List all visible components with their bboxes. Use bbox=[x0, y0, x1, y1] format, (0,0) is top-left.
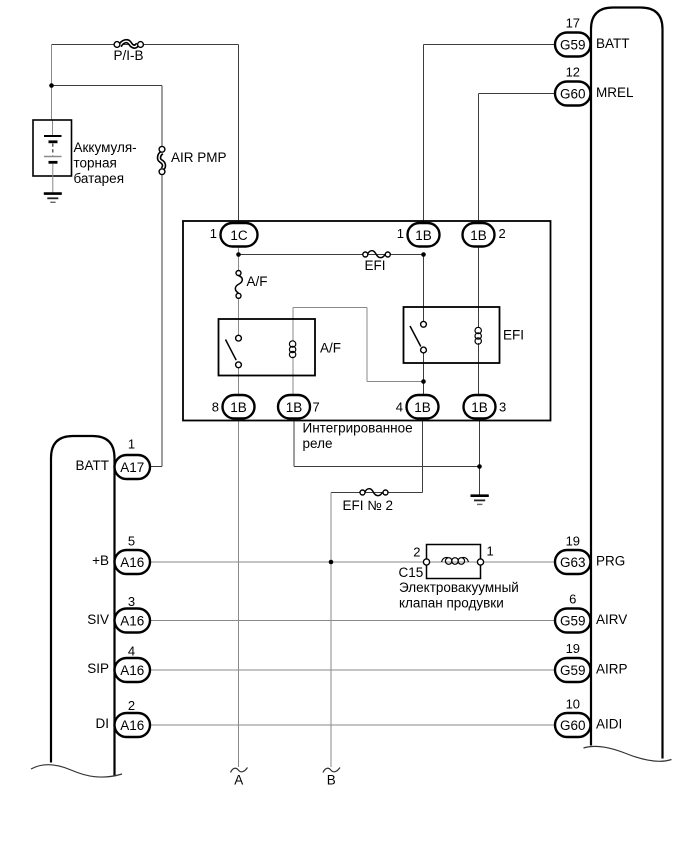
wire: relay pin 1B-3 drop to ground junction and ground lead bbox=[479, 418, 481, 495]
svg-text:1B: 1B bbox=[230, 400, 247, 415]
svg-text:Электровакуумный: Электровакуумный bbox=[399, 580, 519, 595]
svg-text:19: 19 bbox=[566, 641, 580, 656]
svg-text:1: 1 bbox=[210, 226, 217, 241]
torn edge of connector G bbox=[584, 746, 672, 761]
wire: A/F fuse to A/F relay switch top contact bbox=[238, 299, 240, 336]
svg-text:1B: 1B bbox=[471, 400, 488, 415]
svg-text:B: B bbox=[327, 773, 336, 788]
svg-text:AIDI: AIDI bbox=[596, 717, 622, 732]
svg-text:G59: G59 bbox=[560, 38, 586, 53]
battery cell plates bbox=[44, 136, 62, 162]
oval terminal A16 (SIP) bbox=[115, 658, 151, 682]
svg-text:MREL: MREL bbox=[596, 85, 634, 100]
svg-text:P/I-B: P/I-B bbox=[113, 48, 143, 63]
svg-text:1: 1 bbox=[397, 226, 404, 241]
wire: B column from EFI No.2 fuse line down to break B bbox=[330, 493, 332, 768]
oval terminal A16 (DI) bbox=[115, 713, 151, 737]
node: battery branch junction bbox=[49, 83, 54, 88]
oval terminal A16 (+B) bbox=[115, 550, 151, 574]
svg-text:17: 17 bbox=[566, 16, 580, 31]
node: EFI switch output junction bbox=[421, 379, 426, 384]
wire: EFI relay switch bottom contact down to relay pin 1B-4 bbox=[423, 353, 425, 397]
wire: EFI relay coil down to relay pin 1B-3 bbox=[478, 343, 480, 397]
fuse EFI inside relay bbox=[363, 251, 391, 258]
wire: gray link horizontal from A/F coil top bbox=[293, 307, 367, 309]
wire: A/F relay coil bottom lead to relay pin 1B-7 bbox=[292, 356, 294, 397]
svg-text:A16: A16 bbox=[120, 555, 144, 570]
connector body G (right, BATT/MREL/PRG/AIRV/AIRP/AIDI) bbox=[591, 8, 663, 759]
wire: top feed horizontal from battery branch to relay 1C drop bbox=[52, 44, 239, 46]
svg-text:2: 2 bbox=[499, 226, 506, 241]
svg-text:1B: 1B bbox=[415, 228, 432, 243]
svg-text:BATT: BATT bbox=[596, 36, 630, 51]
svg-text:1: 1 bbox=[128, 437, 135, 452]
oval terminal G59 (AIRV) bbox=[555, 609, 591, 633]
wire: relay internal bus from 1C node to 1B-1 node through EFI fuse bbox=[239, 254, 424, 256]
svg-text:клапан продувки: клапан продувки bbox=[399, 596, 504, 611]
svg-text:EFI № 2: EFI № 2 bbox=[343, 498, 394, 513]
C15 pin 1 terminal bbox=[477, 559, 483, 565]
svg-text:3: 3 bbox=[128, 594, 135, 609]
wire: horizontal from 1B-7 drop to ground junction bbox=[294, 466, 480, 468]
A/F relay coil bbox=[289, 341, 295, 358]
svg-text:BATT: BATT bbox=[76, 458, 110, 473]
wire: battery positive vertical from top feed to battery bbox=[51, 45, 53, 121]
svg-text:12: 12 bbox=[566, 65, 580, 80]
EFI relay switch bbox=[410, 321, 426, 353]
wire: DI to AIDI horizontal bbox=[149, 724, 556, 726]
svg-text:4: 4 bbox=[128, 644, 135, 659]
node: relay internal node below 1B-1 bbox=[421, 252, 426, 257]
svg-text:A16: A16 bbox=[120, 718, 144, 733]
svg-text:EFI: EFI bbox=[503, 328, 524, 343]
svg-text:AIR PMP: AIR PMP bbox=[171, 150, 227, 165]
fusible link P/I-B (bold fuse) bbox=[114, 41, 143, 47]
svg-text:2: 2 bbox=[413, 545, 420, 560]
svg-text:реле: реле bbox=[303, 436, 333, 451]
torn edge of connector A bbox=[31, 765, 122, 777]
svg-text:G63: G63 bbox=[560, 555, 586, 570]
svg-text:G59: G59 bbox=[560, 663, 586, 678]
wire: 1C oval to internal node bbox=[238, 246, 240, 271]
battery B1 box (Аккумуляторная батарея) bbox=[33, 120, 72, 176]
wire: SIV to AIRV horizontal bbox=[149, 620, 556, 622]
oval pin 1B-3 on relay bbox=[464, 395, 496, 419]
svg-text:A16: A16 bbox=[120, 614, 144, 629]
C15 pin 2 terminal bbox=[423, 559, 429, 565]
svg-text:3: 3 bbox=[499, 400, 506, 415]
wire: AIR PMP column upper segment bbox=[161, 86, 163, 148]
svg-text:1B: 1B bbox=[470, 228, 487, 243]
wire: vertical drop from top feed to relay pin 1C bbox=[238, 45, 240, 224]
svg-text:A: A bbox=[234, 773, 243, 788]
wire: EFI No.2 fuse horizontal from 1B-4 drop to B column bbox=[331, 492, 423, 494]
A/F relay switch bbox=[226, 335, 242, 367]
svg-text:EFI: EFI bbox=[364, 258, 385, 273]
oval terminal G59 (AIRP) bbox=[555, 658, 591, 682]
svg-text:SIP: SIP bbox=[87, 661, 109, 676]
svg-text:2: 2 bbox=[128, 698, 135, 713]
oval terminal A16 (SIV) bbox=[115, 609, 151, 633]
wire: 1B-2 column down to EFI relay coil bbox=[478, 246, 480, 328]
svg-text:8: 8 bbox=[212, 400, 219, 415]
svg-text:батарея: батарея bbox=[74, 171, 125, 186]
fusible link AIR PMP (bold fuse) bbox=[159, 146, 165, 174]
svg-text:19: 19 bbox=[566, 534, 580, 549]
ground symbol at battery bbox=[44, 194, 62, 203]
node: ground junction under relay bbox=[477, 464, 482, 469]
svg-text:6: 6 bbox=[569, 592, 576, 607]
svg-text:G59: G59 bbox=[560, 614, 586, 629]
wire: relay pin 1B-7 drop below relay bbox=[293, 418, 295, 467]
C15 coil (solenoid) bbox=[442, 557, 469, 565]
oval pin 1B-4 on relay bbox=[407, 395, 439, 419]
svg-text:A/F: A/F bbox=[320, 341, 341, 356]
node: relay internal node below 1C bbox=[236, 252, 241, 257]
svg-text:PRG: PRG bbox=[596, 554, 625, 569]
wire: G59 BATT horizontal to 1B pin1 drop bbox=[424, 44, 557, 46]
svg-text:1B: 1B bbox=[414, 400, 431, 415]
svg-text:1: 1 bbox=[487, 544, 494, 559]
oval terminal G63 (PRG) bbox=[555, 550, 591, 574]
break symbol A bbox=[231, 768, 248, 773]
svg-text:Интегрированное: Интегрированное bbox=[303, 421, 413, 436]
svg-text:AIRV: AIRV bbox=[596, 612, 627, 627]
connector body A (left, BATT/+B/SIV/SIP/DI) bbox=[51, 436, 115, 777]
oval pin 1B-1 on relay bbox=[408, 223, 440, 247]
oval terminal G60 (AIDI) bbox=[555, 713, 591, 737]
fuse A/F inside relay (vertical) bbox=[235, 271, 242, 299]
wire: stub from A17 oval to AIR PMP column bbox=[149, 466, 162, 468]
EFI relay box bbox=[404, 307, 500, 363]
wire: battery negative lead to ground bbox=[52, 164, 54, 194]
oval pin 1C on relay bbox=[221, 223, 258, 247]
svg-text:A17: A17 bbox=[120, 460, 144, 475]
wire: AIR PMP column lower segment down to A17 stub bbox=[161, 174, 163, 467]
wire: G60 MREL horizontal to 1B pin2 drop bbox=[479, 93, 557, 95]
C15 purge valve box bbox=[427, 545, 481, 579]
svg-text:10: 10 bbox=[566, 697, 580, 712]
wire: SIP to AIRP horizontal bbox=[149, 669, 556, 671]
svg-text:4: 4 bbox=[396, 400, 403, 415]
wire: vertical drop from G60 MREL wire to relay pin 1B-2 bbox=[478, 94, 480, 224]
wire: A column from relay pin 1B-8 down to break A bbox=[238, 418, 240, 767]
svg-text:1C: 1C bbox=[230, 228, 248, 243]
svg-text:G60: G60 bbox=[560, 87, 586, 102]
svg-text:+B: +B bbox=[92, 553, 109, 568]
svg-text:1B: 1B bbox=[286, 400, 303, 415]
wire: branch horizontal from battery junction to AIR PMP column bbox=[52, 85, 163, 87]
svg-text:G60: G60 bbox=[560, 718, 586, 733]
oval pin 1B-8 on relay bbox=[223, 395, 255, 419]
svg-text:торная: торная bbox=[74, 156, 117, 171]
wire: battery internal top lead bbox=[52, 120, 54, 135]
oval pin 1B-7 on relay bbox=[278, 395, 310, 419]
integrated relay outer box bbox=[183, 221, 551, 421]
node: +B / B-column junction bbox=[329, 560, 334, 565]
oval pin 1B-2 on relay bbox=[463, 223, 495, 247]
fuse EFI No.2 bbox=[360, 489, 388, 496]
svg-text:C15: C15 bbox=[399, 565, 424, 580]
oval terminal A17 (BATT) bbox=[115, 455, 151, 479]
wire: gray link vertical bbox=[366, 308, 368, 382]
wire: relay pin 1B-4 drop to EFI No.2 fuse line bbox=[422, 418, 424, 493]
svg-text:7: 7 bbox=[313, 400, 320, 415]
svg-text:A/F: A/F bbox=[247, 274, 268, 289]
ground symbol under relay bbox=[471, 496, 489, 505]
A/F relay box bbox=[219, 319, 316, 376]
break symbol B bbox=[323, 768, 340, 773]
oval terminal G59 (BATT) bbox=[555, 33, 591, 57]
svg-text:SIV: SIV bbox=[87, 612, 109, 627]
wire: A/F relay coil top lead bbox=[292, 308, 294, 342]
wire: A/F relay switch bottom contact to relay pin 1B-8 bbox=[238, 368, 240, 397]
wire: 1B-1 node down to EFI relay switch top contact bbox=[423, 255, 425, 322]
wire: gray link horizontal into EFI switch output node bbox=[367, 381, 424, 383]
wire: vertical drop from G59 BATT wire to relay pin 1B-1 bbox=[423, 45, 425, 224]
wire: +B to PRG horizontal through C15 bbox=[149, 561, 556, 563]
svg-text:5: 5 bbox=[128, 534, 135, 549]
svg-text:DI: DI bbox=[96, 716, 110, 731]
oval terminal G60 (MREL) bbox=[555, 82, 591, 106]
EFI relay coil bbox=[475, 327, 481, 344]
svg-text:Аккумуля-: Аккумуля- bbox=[74, 140, 137, 155]
svg-text:A16: A16 bbox=[120, 663, 144, 678]
svg-text:AIRP: AIRP bbox=[596, 662, 628, 677]
